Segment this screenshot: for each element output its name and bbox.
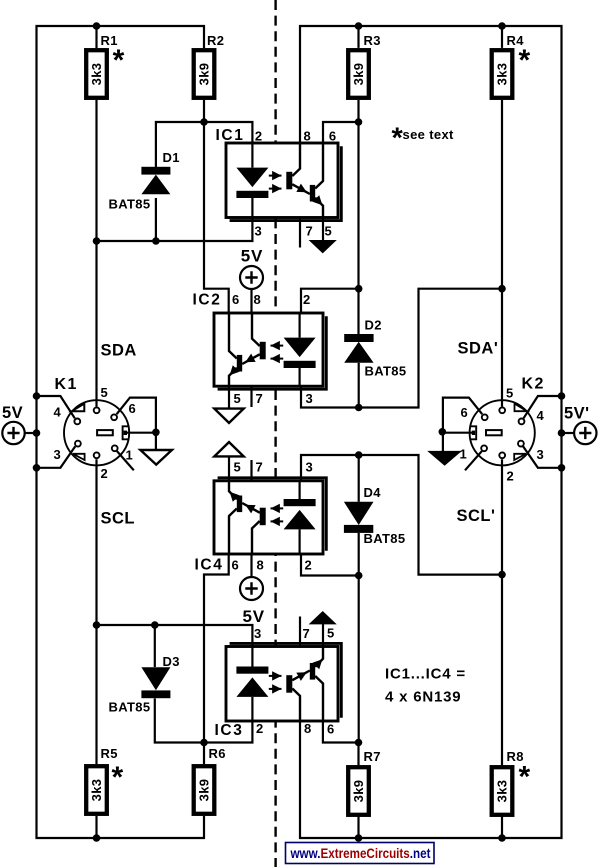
svg-text:5: 5	[234, 391, 242, 406]
K2 pin 5 circle	[499, 407, 505, 413]
IC1 light arrow upper	[269, 175, 282, 177]
svg-text:3: 3	[537, 447, 545, 462]
svg-text:8: 8	[304, 129, 312, 144]
svg-text:IC1: IC1	[216, 127, 245, 144]
IC1 LED triangle	[236, 168, 268, 188]
IC3 LED cathode bar	[236, 667, 268, 674]
svg-text:3: 3	[54, 447, 62, 462]
IC3 light arrow lower	[269, 688, 282, 690]
ground IC4 (open triangle)	[214, 442, 243, 456]
IC1 box	[226, 143, 338, 218]
wire SDA-prime: IC2 pin 3 and D2 bottom to K2 pin 5 column	[301, 289, 502, 408]
svg-text:R2: R2	[207, 33, 224, 48]
IC3 Q2 collector to pin 6	[315, 676, 323, 721]
node R3 top junction	[355, 22, 363, 30]
connector K2 (mini-DIN-6, mirrored)	[443, 398, 535, 471]
5V supply source left	[2, 422, 24, 444]
svg-text:8: 8	[257, 558, 265, 573]
IC4 pin 5 ground lead	[228, 457, 230, 481]
IC4 light arrow lower	[271, 520, 284, 522]
K2 shell circle	[470, 400, 535, 465]
K2 pin 3 circle	[518, 441, 524, 447]
svg-text:5: 5	[101, 385, 109, 400]
IC2 Q1 emitter to Q2 base	[242, 354, 260, 364]
resistor R8	[492, 767, 513, 815]
svg-text:3k3: 3k3	[495, 63, 510, 86]
K2 pin 1 circle	[481, 445, 487, 451]
wire R2 column down to IC2 pin 6	[204, 100, 229, 313]
svg-text:BAT85: BAT85	[365, 364, 407, 379]
svg-text:*: *	[519, 761, 531, 794]
wire K1 pin 3 branch from left rail	[37, 446, 76, 467]
K2 shield bracket	[471, 426, 477, 439]
IC2 LED triangle	[284, 338, 316, 358]
IC4 box shadow	[218, 478, 327, 551]
wire K1 pin 4 branch from left rail	[37, 396, 75, 418]
svg-text:6: 6	[329, 129, 337, 144]
svg-text:3k3: 3k3	[89, 63, 104, 86]
svg-text:SCL': SCL'	[457, 507, 496, 525]
svg-text:3: 3	[254, 626, 262, 641]
svg-text:6: 6	[129, 401, 137, 416]
IC4 transistor Q2 base bar	[237, 496, 242, 513]
IC3 light arrow upper	[269, 675, 282, 677]
IC2 light arrow upper	[271, 345, 284, 347]
svg-text:3: 3	[306, 460, 314, 475]
svg-text:K2: K2	[522, 376, 545, 393]
node R4 top junction	[498, 22, 506, 30]
svg-text:R6: R6	[209, 746, 226, 761]
IC2 Q1 collector to pin 8	[252, 313, 260, 346]
IC2 transistor Q1 base bar	[260, 342, 266, 360]
IC4 Q2 collector to pin 6	[229, 509, 237, 555]
node 5V source on rail	[33, 429, 41, 437]
wire R4 column down to K2 pin 5	[501, 100, 503, 407]
svg-text:3k3: 3k3	[495, 780, 510, 803]
svg-text:IC1...IC4 =: IC1...IC4 =	[385, 666, 466, 683]
5V supply source above IC2	[240, 266, 263, 289]
node R7 bottom junction	[355, 834, 363, 842]
svg-text:D3: D3	[163, 654, 180, 669]
connector K1 (mini-DIN-6)	[64, 400, 134, 470]
svg-text:*: *	[519, 44, 531, 77]
svg-text:3: 3	[306, 391, 314, 406]
svg-text:6: 6	[232, 292, 240, 307]
resistor R4	[492, 50, 513, 98]
K1 shield bracket	[123, 426, 129, 439]
wire 5V left rail: R2 top, top rail, left outer, bottom rail, R6 bottom	[37, 26, 205, 838]
svg-text:1: 1	[126, 448, 134, 463]
svg-text:5V: 5V	[241, 247, 263, 266]
svg-text:5: 5	[327, 626, 335, 641]
svg-text:IC3: IC3	[215, 722, 244, 739]
svg-text:BAT85: BAT85	[364, 531, 406, 546]
svg-text:5: 5	[234, 460, 242, 475]
K2 keyway tab lower	[514, 454, 526, 460]
svg-text:SDA: SDA	[101, 342, 137, 360]
node D2 bottom junction	[355, 404, 363, 412]
ground K1 (open triangle)	[140, 450, 172, 465]
node D1 bottom junction	[152, 237, 160, 245]
wire R6 column up to IC4 pin 6	[204, 554, 229, 764]
K1 pin 6 circle	[111, 414, 117, 420]
svg-text:2: 2	[303, 292, 311, 307]
wire D2 bottom lead	[358, 363, 360, 408]
wire 5V right rail: IC1 pin8, top rail, right outer, bottom rail, IC3 pin8	[300, 26, 562, 838]
node SCL row at R5	[93, 621, 101, 629]
K1 shell circle	[64, 400, 129, 465]
node 5V-prime source on rail	[558, 429, 566, 437]
diode D1 BAT85 anode triangle	[141, 175, 170, 195]
diode D1 BAT85 cathode bar	[141, 167, 170, 175]
IC1 Q1 collector to pin 8	[292, 143, 300, 176]
svg-text:5V: 5V	[2, 404, 23, 422]
IC4 LED cathode lead (pin 3)	[299, 481, 301, 499]
IC1 pin 5 ground lead	[322, 218, 324, 241]
svg-text:2: 2	[507, 469, 515, 484]
K2 pin 6 circle	[482, 414, 488, 420]
IC2 transistor Q2 base bar	[237, 355, 242, 372]
IC1 light arrow lower	[269, 188, 282, 190]
wire IC2 pin 2 to D2 top node	[301, 289, 359, 313]
svg-text:D4: D4	[364, 485, 382, 500]
5V supply source below IC4	[240, 577, 263, 600]
wire R4 top lead	[501, 26, 503, 48]
svg-text:5: 5	[506, 386, 514, 401]
node K2 pin3 on rail	[558, 464, 566, 472]
resistor R7	[348, 767, 369, 815]
IC4 LED anode lead (pin 2)	[299, 529, 301, 554]
node SCL-prime / K2 pin2 column junction	[498, 571, 506, 579]
IC4 LED triangle	[284, 510, 316, 530]
resistor R3	[348, 50, 369, 98]
svg-text:BAT85: BAT85	[109, 197, 151, 212]
IC2 pin 5 ground lead	[228, 386, 230, 408]
node K1 ground junction	[152, 429, 160, 437]
IC3 pin 7 stub	[299, 617, 301, 647]
IC2 Q2 collector to pin 6	[229, 313, 237, 359]
IC4 transistor Q1 base bar	[260, 508, 266, 526]
op-coupler IC4 (6N139)	[214, 478, 326, 554]
node D3 top junction	[151, 621, 159, 629]
svg-text:R7: R7	[364, 749, 381, 764]
wire R1 top lead	[95, 26, 97, 48]
K2 pin 4 circle	[519, 419, 525, 425]
wire IC3 pin 6 to R7 column	[323, 721, 359, 743]
svg-text:4: 4	[537, 408, 545, 423]
IC1 LED anode lead (pin 2)	[251, 143, 253, 168]
node K1 pin3 on rail	[33, 464, 41, 472]
resistor R1	[86, 50, 107, 98]
IC4 Q1 emitter to Q2 base	[242, 503, 260, 513]
svg-text:www.ExtremeCircuits.net: www.ExtremeCircuits.net	[290, 846, 431, 861]
IC4 Q1 collector to pin 8	[252, 521, 260, 554]
IC1 box shadow	[230, 146, 342, 220]
node R1 top junction	[93, 22, 101, 30]
wire R3 top lead	[357, 26, 359, 48]
wire K1 pin 6 to ground	[117, 398, 156, 433]
svg-text:D1: D1	[163, 150, 180, 165]
svg-text:3k9: 3k9	[351, 63, 366, 86]
node D2 top junction	[355, 285, 363, 293]
wire 5V source to left rail	[25, 432, 37, 434]
svg-text:7: 7	[256, 460, 264, 475]
wire D3 top lead	[154, 625, 156, 667]
node D1 top / R2 / IC1 pin2 junction	[200, 118, 208, 126]
IC2 box	[214, 313, 323, 386]
wire R3 column: R3 bottom through IC1 pin6 node to D2	[357, 100, 359, 334]
IC3 pin 5 ground lead	[322, 624, 324, 647]
diode D4 BAT85 cathode bar	[344, 525, 373, 533]
wire K2 pin 3 branch from right rail	[523, 446, 561, 467]
wire SCL net: K1 pin 2 down to R5 top	[95, 459, 97, 764]
IC2 light arrow lower	[271, 358, 284, 360]
svg-text:5V': 5V'	[564, 405, 590, 423]
wire K2 pin 4 branch from right rail	[524, 396, 562, 418]
svg-text:5: 5	[325, 224, 333, 239]
footer website box	[286, 843, 435, 864]
K1 keyway tab lower	[73, 454, 85, 460]
svg-text:1: 1	[460, 447, 468, 462]
wire ground lead K2	[442, 432, 444, 451]
diode D4 BAT85 anode triangle	[344, 502, 374, 525]
IC4 box	[214, 481, 323, 554]
svg-text:2: 2	[101, 466, 109, 481]
wire SDA row to IC1 pin 3	[97, 218, 253, 242]
IC1 Q1 emitter to Q2 base	[292, 184, 310, 194]
svg-text:8: 8	[304, 721, 312, 736]
wire IC1 pin 6 to R3 column	[323, 122, 359, 143]
K1 pin 4 circle	[74, 419, 80, 425]
IC4 light arrow upper	[271, 507, 284, 509]
svg-text:2: 2	[255, 129, 263, 144]
IC3 Q2 emitter to pin 5	[315, 647, 323, 667]
IC3 Q1 collector to pin 8	[292, 689, 300, 722]
svg-text:SDA': SDA'	[458, 340, 499, 358]
svg-text:SCL: SCL	[101, 510, 136, 528]
wire IC4 pin 2 to D4 bottom node	[301, 554, 359, 576]
wire K1 shield to ground	[127, 432, 156, 434]
node K2 ground junction	[439, 428, 447, 436]
IC1 transistor Q2 base bar	[310, 185, 315, 202]
wire D4 top lead	[358, 455, 360, 502]
IC2 LED cathode bar	[284, 361, 316, 368]
node R8 bottom junction	[498, 834, 506, 842]
svg-text:IC4: IC4	[195, 557, 224, 574]
svg-text:6: 6	[232, 558, 240, 573]
svg-text:7: 7	[303, 626, 311, 641]
wire R8 bottom lead	[501, 816, 503, 838]
wire branch to IC1 pin 2	[204, 122, 252, 143]
node R5 bottom junction	[93, 834, 101, 842]
IC2 box shadow	[218, 316, 327, 389]
IC3 box shadow	[230, 643, 342, 717]
IC4 Q2 emitter to pin 5	[229, 481, 237, 499]
svg-text:3k9: 3k9	[351, 780, 366, 803]
IC1 pin 7 stub	[299, 218, 301, 248]
wire K2 pin 2 column down to R8 top	[501, 459, 503, 766]
node IC1 pin6 / R3 junction	[355, 118, 363, 126]
op-coupler IC1 (6N139)	[226, 143, 341, 221]
wire D1 top lead to R2 column	[156, 122, 204, 167]
svg-text:R5: R5	[101, 746, 118, 761]
K2 key slot	[486, 430, 502, 435]
IC1 Q2 emitter to pin 5	[315, 198, 323, 218]
IC3 transistor Q2 base bar	[310, 663, 315, 680]
IC3 box	[226, 647, 338, 722]
svg-text:6: 6	[327, 722, 335, 737]
svg-text:3k9: 3k9	[197, 63, 212, 86]
svg-text:see text: see text	[403, 127, 455, 142]
IC4 LED cathode bar	[284, 499, 316, 506]
IC2 pin 7 stub	[250, 386, 252, 407]
svg-text:4: 4	[54, 405, 62, 420]
resistor R2	[194, 50, 215, 98]
diode D3 BAT85 cathode bar	[141, 690, 170, 698]
resistor R5	[86, 766, 107, 814]
svg-text:5V: 5V	[243, 607, 265, 626]
svg-text:*: *	[112, 761, 124, 794]
IC3 LED anode lead (pin 2)	[251, 697, 253, 721]
wire D4 bottom column down to R7 top	[357, 533, 359, 766]
wire SCL-prime: IC4 pin 3 and D4 top to K2 pin 2 column	[301, 455, 502, 575]
IC3 Q1 emitter to Q2 base	[292, 671, 310, 681]
IC2 LED anode lead (pin 2)	[299, 313, 301, 338]
node K2 pin4 on rail	[558, 392, 566, 400]
isolation barrier dashed line	[274, 0, 276, 867]
node SDA-prime / R4 column junction	[498, 285, 506, 293]
IC2 Q2 emitter to pin 5	[229, 368, 237, 386]
diode D3 BAT85 anode triangle	[141, 667, 170, 690]
K1 pin 3 circle	[75, 441, 81, 447]
5V-prime supply source right	[574, 422, 596, 444]
node K1 pin4 on rail	[33, 392, 41, 400]
wire SDA net: R1 column to K1 pin 5	[95, 100, 97, 407]
svg-text:IC2: IC2	[193, 292, 222, 309]
wire D1 bottom lead	[155, 198, 157, 241]
resistor R6	[194, 766, 215, 814]
K1 keyway tab upper	[72, 404, 85, 412]
node D3 bottom / R6 junction	[200, 739, 208, 747]
diode D2 BAT85 anode triangle	[344, 342, 373, 363]
wire SCL row to IC3 pin 3	[97, 625, 253, 646]
wire ground lead K1	[155, 432, 157, 450]
svg-text:7: 7	[306, 224, 314, 239]
svg-text:K1: K1	[55, 376, 78, 393]
svg-text:2: 2	[305, 558, 313, 573]
ground IC3 (filled arrow)	[309, 611, 337, 624]
ground IC1 (filled arrow)	[309, 240, 337, 253]
svg-text:3k9: 3k9	[197, 779, 212, 802]
op-coupler IC3 (6N139)	[226, 643, 341, 721]
wire K2 pin 6 to ground	[443, 398, 482, 433]
svg-text:*: *	[113, 44, 125, 77]
wire R7 bottom lead	[357, 816, 359, 838]
IC2 LED cathode lead (pin 3)	[299, 368, 301, 386]
wire IC4 pin 8 to 5V source	[250, 554, 252, 577]
K1 key slot	[97, 430, 113, 435]
IC1 LED cathode bar	[236, 191, 268, 198]
ground IC2 (open triangle)	[214, 409, 243, 423]
IC3 LED triangle	[236, 677, 268, 697]
svg-text:4 x 6N139: 4 x 6N139	[385, 689, 461, 706]
wire D3 bottom lead to IC3 pin 2 row	[155, 698, 253, 742]
svg-text:3: 3	[255, 224, 263, 239]
svg-text:7: 7	[256, 391, 264, 406]
K1 pin 5 circle	[94, 407, 100, 413]
svg-text:BAT85: BAT85	[109, 700, 151, 715]
wire 5V-prime source to right rail	[562, 432, 575, 434]
wire 5V source to IC2 pin 8	[250, 290, 252, 313]
IC3 LED cathode lead (pin 3)	[251, 647, 253, 667]
svg-text:D2: D2	[365, 318, 382, 333]
svg-text:8: 8	[254, 292, 262, 307]
K1 pin 1 circle	[112, 445, 118, 451]
op-coupler IC2 (6N139)	[214, 313, 326, 389]
K2 pin 2 circle	[499, 452, 505, 458]
K1 pin 1 stub	[117, 451, 134, 470]
wire K2 shield to ground	[443, 432, 472, 434]
IC1 Q2 collector to pin 6	[315, 143, 323, 189]
diode D2 BAT85 cathode bar	[344, 334, 373, 342]
IC1 transistor Q1 base bar	[286, 172, 292, 190]
node D4 top junction	[355, 451, 363, 459]
svg-text:6: 6	[461, 405, 469, 420]
svg-text:2: 2	[256, 721, 264, 736]
IC3 transistor Q1 base bar	[286, 675, 292, 693]
IC1 LED cathode lead (pin 3)	[251, 198, 253, 218]
wire R5 bottom lead	[95, 816, 97, 838]
svg-text:R3: R3	[364, 33, 381, 48]
K2 pin 1 stub	[465, 451, 482, 470]
node IC3 pin6 / R7 junction	[355, 739, 363, 747]
K1 pin 2 circle	[94, 452, 100, 458]
IC4 pin 7 stub	[250, 460, 252, 481]
ground K2 (filled arrow)	[427, 451, 462, 466]
node D4 bottom junction	[355, 572, 363, 580]
svg-text:3k3: 3k3	[89, 779, 104, 802]
K2 keyway tab upper	[515, 404, 528, 412]
node SDA/IC1 pin3 row at R1	[93, 237, 101, 245]
